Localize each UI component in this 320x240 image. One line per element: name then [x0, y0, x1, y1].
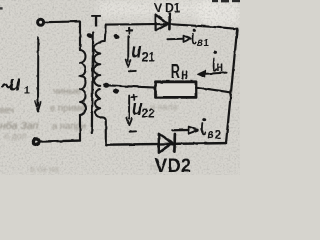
wire right edge	[226, 29, 237, 143]
wire primary bottom stub	[79, 115, 81, 141]
terminal (input top)	[38, 19, 44, 25]
voltage arrow u1	[37, 37, 39, 106]
svg-text:1: 1	[203, 38, 209, 49]
scan artifacts at top edge	[0, 0, 240, 10]
svg-text:чиные: чиные	[53, 86, 81, 97]
svg-text:н: н	[181, 66, 188, 83]
polarity dot secondary lower	[112, 88, 119, 94]
svg-text:R: R	[171, 60, 180, 83]
svg-text:u: u	[10, 72, 21, 96]
diode VD1	[156, 15, 169, 31]
transformer secondary upper winding	[94, 43, 100, 86]
paper background	[0, 0, 240, 175]
transformer secondary lower winding	[95, 89, 100, 117]
wire secondary bottom stub	[100, 117, 106, 144]
wire secondary top stub	[100, 25, 105, 43]
svg-text:21: 21	[142, 49, 156, 65]
svg-text:V: V	[155, 156, 168, 175]
wire bottom-left	[40, 141, 80, 142]
polarity dot secondary upper	[113, 33, 120, 40]
voltage arrow u21	[127, 36, 129, 61]
bleed-through ghost text	[0, 86, 178, 174]
svg-text:V: V	[154, 0, 163, 15]
wire top-left	[45, 20, 81, 23]
resistor RH	[156, 82, 197, 98]
wire primary top stub	[79, 21, 81, 50]
svg-text:в оз на: в оз на	[30, 164, 59, 174]
svg-text:2: 2	[215, 130, 221, 142]
bright patch top-right	[198, 0, 240, 26]
label u21 minus	[129, 70, 135, 72]
node center tap junction	[103, 83, 109, 88]
svg-text:веч: веч	[0, 105, 14, 115]
transformer T primary winding	[80, 50, 86, 115]
wire RH right	[197, 87, 232, 92]
svg-text:22: 22	[142, 106, 155, 121]
label u1 tilde	[2, 84, 11, 87]
label iH stem	[213, 59, 216, 71]
current arrow iB2	[172, 129, 188, 131]
label iB2 stem	[202, 123, 205, 134]
label iB1	[193, 34, 196, 44]
voltage arrow u22	[128, 96, 130, 119]
label u22 plus	[131, 94, 137, 100]
svg-text:е приме: е приме	[50, 103, 85, 114]
svg-text:u: u	[131, 40, 142, 63]
wire center tap to RH	[106, 85, 155, 87]
polarity dot primary	[86, 32, 94, 39]
diode VD2	[159, 134, 173, 153]
terminal (input bottom)	[33, 139, 39, 145]
wire bottom (secondary to VD2 to right edge)	[106, 143, 226, 145]
current arrow iB1	[168, 38, 184, 40]
transformer core	[92, 33, 93, 134]
svg-text:н: н	[216, 59, 223, 74]
paper noise speckle	[0, 0, 240, 175]
svg-text:D2: D2	[168, 155, 191, 175]
svg-text:в: в	[208, 127, 214, 141]
label u21 plus	[127, 28, 133, 34]
svg-text:1: 1	[24, 85, 30, 97]
svg-text:T: T	[91, 13, 101, 31]
svg-text:о доп: о доп	[4, 131, 27, 141]
svg-text:D1: D1	[165, 1, 181, 15]
current arrow iH	[204, 73, 227, 74]
label u22 minus	[130, 130, 136, 132]
wire top (secondary to VD1 to right edge)	[106, 24, 238, 29]
